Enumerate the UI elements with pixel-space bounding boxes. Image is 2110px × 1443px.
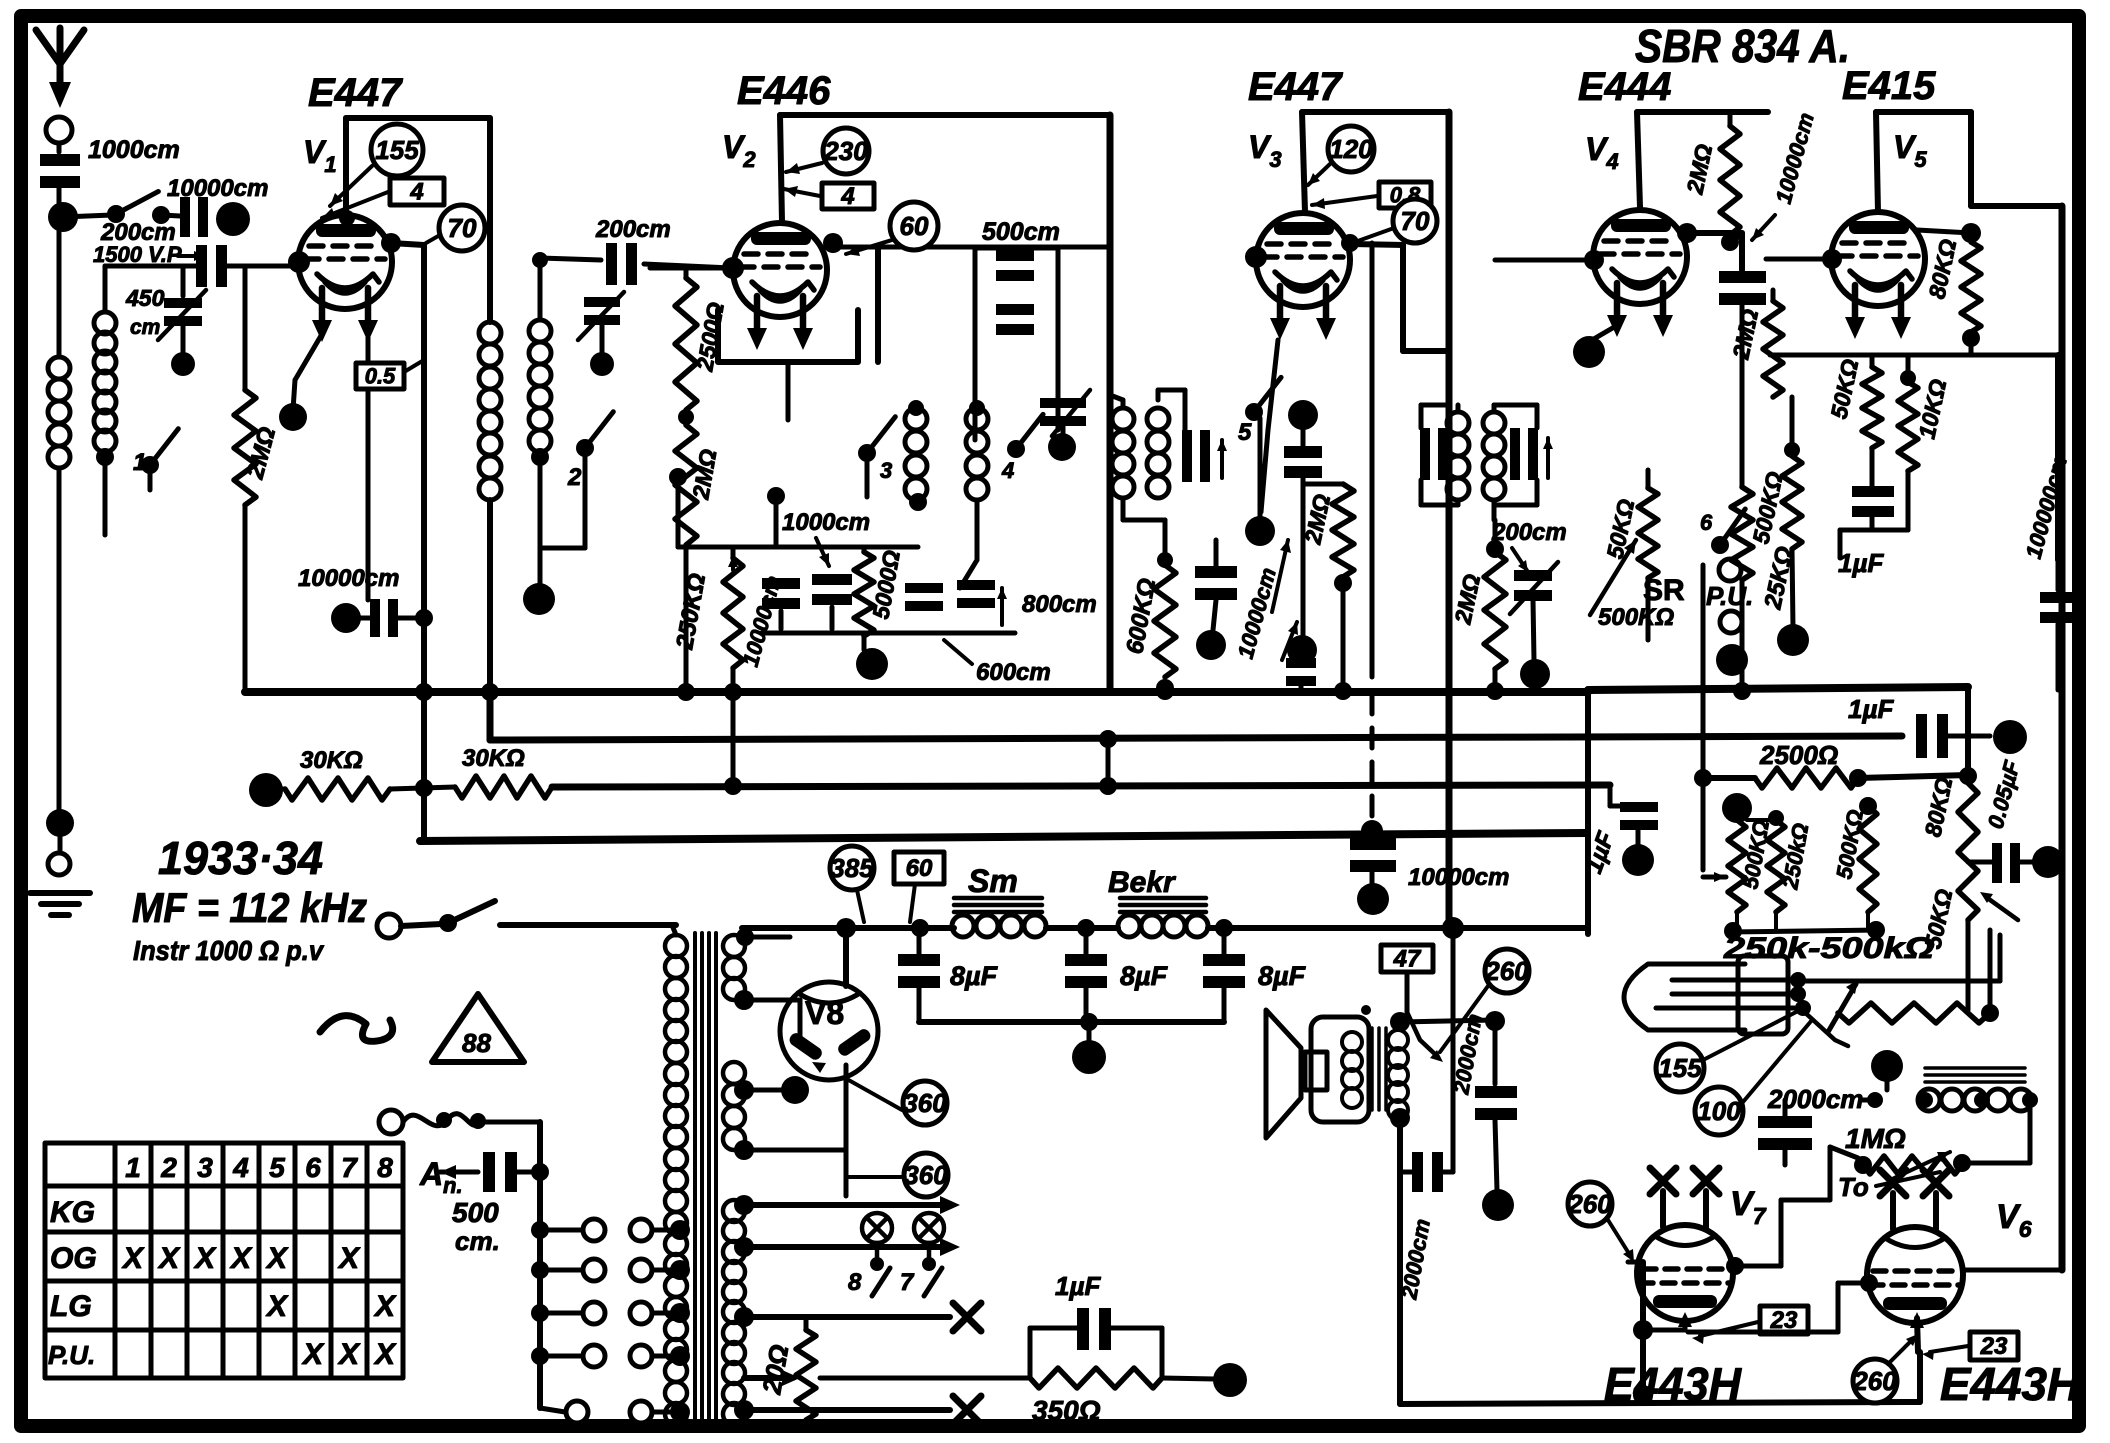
wire — [532, 252, 601, 320]
svg-text:100: 100 — [1697, 1096, 1741, 1126]
top rail V5 — [1876, 112, 1971, 212]
bus A — [245, 688, 1588, 696]
node blob2 — [1287, 635, 1317, 665]
box 23 V6 — [1970, 1332, 2018, 1360]
svg-text:4: 4 — [409, 179, 423, 206]
label 10k — [1913, 377, 1951, 441]
svg-text:5: 5 — [269, 1152, 285, 1183]
switch 5 — [1238, 377, 1281, 446]
capacitor coupling V4-V5 — [1719, 271, 1766, 305]
tilde symbol — [320, 1016, 393, 1042]
fuse — [403, 1112, 486, 1129]
capacitor 500cm a — [996, 250, 1034, 281]
circle 155 — [371, 124, 423, 176]
wire V1 topcap — [343, 118, 349, 215]
capacitor 500cm An — [483, 1152, 540, 1192]
label 2000cm spk — [1448, 1012, 1487, 1097]
svg-text:X: X — [373, 1290, 397, 1323]
svg-text:X: X — [265, 1242, 289, 1275]
resistor 1M tone — [1845, 1123, 1971, 1180]
node V3 plate — [1341, 234, 1359, 252]
pointer — [784, 186, 820, 197]
svg-text:1: 1 — [133, 449, 146, 476]
label 500k v4 — [1747, 469, 1788, 546]
tube V1 — [298, 215, 392, 342]
label E443H b — [1940, 1358, 2081, 1410]
wire — [1781, 1147, 1858, 1266]
node blob — [1993, 720, 2027, 754]
svg-text:1933·34: 1933·34 — [158, 832, 323, 884]
switch 7 — [900, 1268, 942, 1296]
label 25k — [1759, 544, 1799, 612]
svg-text:10000cm: 10000cm — [167, 175, 268, 202]
label 8uF 1 — [950, 961, 999, 991]
wire 8uF bottom — [919, 1019, 1224, 1025]
wire — [1110, 390, 1185, 400]
svg-text:200cm: 200cm — [1491, 519, 1567, 546]
resistor SR 50k — [1638, 488, 1658, 578]
label 250k-500k — [1723, 932, 1934, 965]
pointer — [1312, 196, 1377, 209]
label 2500ohm — [1759, 740, 1838, 770]
circle 260 V7 — [1567, 1182, 1612, 1226]
label 1933-34 — [158, 832, 323, 884]
wire — [644, 264, 731, 268]
wire V3 plate — [1245, 244, 1449, 351]
pointer — [322, 192, 388, 219]
label 1uF busB — [1848, 694, 1894, 724]
pilot lamp 2 — [914, 1213, 944, 1271]
svg-text:cm: cm — [130, 316, 160, 339]
label 250k — [671, 571, 711, 652]
capacitor 8uF 3 — [1203, 928, 1245, 1022]
svg-text:260: 260 — [1484, 956, 1529, 986]
node V5 plate — [1822, 223, 1981, 269]
label 500cm — [982, 218, 1060, 246]
svg-text:X: X — [121, 1242, 145, 1275]
wire main antenna down — [57, 229, 62, 357]
node blob — [1072, 1040, 1106, 1074]
svg-text:1µF: 1µF — [1055, 1271, 1101, 1301]
pointer — [426, 235, 440, 243]
coil V1 plate load — [479, 322, 501, 500]
wire — [181, 266, 186, 296]
wire V1 plate — [391, 243, 433, 701]
label An — [419, 1156, 463, 1198]
wire V7 cath — [1633, 1312, 1692, 1340]
svg-text:6: 6 — [1700, 510, 1713, 535]
IF1 coil a — [1112, 400, 1134, 498]
svg-text:E443H: E443H — [1940, 1358, 2081, 1410]
wire — [487, 118, 493, 322]
wire — [672, 925, 676, 935]
svg-text:2: 2 — [160, 1152, 177, 1183]
label 005uF — [1983, 758, 2025, 832]
circle 260 V6 — [1852, 1359, 1897, 1403]
capacitor 1uF 350 — [1030, 1308, 1162, 1378]
svg-text:1500 V.P: 1500 V.P — [93, 242, 182, 267]
wire — [63, 215, 112, 217]
label 2M v3 — [1299, 492, 1335, 547]
tube V7 — [1637, 1168, 1733, 1321]
IF2 top wires — [1421, 351, 1537, 428]
label 500k a — [1737, 818, 1774, 891]
wire — [1087, 1022, 1092, 1042]
svg-text:To: To — [1838, 1172, 1869, 1202]
arrow row X2 — [734, 1396, 981, 1424]
node blob — [1288, 400, 1318, 430]
transformer secondary low — [723, 1200, 745, 1425]
wire V4 grid — [1495, 258, 1592, 263]
svg-text:X: X — [337, 1242, 361, 1275]
svg-text:E415: E415 — [1842, 64, 1936, 108]
label 500cm An — [452, 1197, 500, 1256]
tube V8 — [780, 982, 878, 1080]
node cath blob v4 — [1573, 336, 1605, 368]
capacitor 800cm b — [957, 580, 1007, 625]
node V1 plate — [381, 233, 401, 253]
resistor 20ohm pot — [796, 1317, 816, 1420]
wire grid V2 — [650, 266, 733, 271]
antenna — [36, 28, 84, 108]
svg-text:X: X — [337, 1338, 361, 1371]
speaker coil — [1342, 1032, 1362, 1108]
node V2 plate — [722, 233, 843, 279]
capacitor osc 2 — [812, 574, 852, 629]
bus C elbow cap — [1610, 785, 1658, 846]
transformer tap2 — [734, 1076, 809, 1104]
label 350ohm — [1032, 1395, 1101, 1426]
node — [152, 206, 170, 224]
wire — [767, 362, 788, 545]
wire PU down — [1703, 565, 1726, 882]
ballast bulb — [1624, 956, 1788, 1034]
capacitor 1000cm — [40, 154, 80, 206]
circle 120 — [1328, 126, 1374, 172]
pointer — [1355, 228, 1394, 242]
wire — [540, 448, 585, 548]
svg-text:30KΩ: 30KΩ — [300, 747, 363, 774]
IF2 bottom wires — [1421, 480, 1537, 520]
pointer — [1922, 1346, 1968, 1360]
pointer — [1890, 1334, 1918, 1362]
svg-text:3: 3 — [880, 458, 892, 483]
node busD junction — [1361, 820, 1383, 842]
label 2500 — [691, 300, 729, 374]
wire mains — [500, 922, 676, 928]
svg-text:230: 230 — [823, 136, 868, 166]
label 30k a — [300, 747, 363, 774]
transformer core — [695, 933, 716, 1428]
svg-text:60: 60 — [900, 211, 929, 241]
power line right — [742, 925, 954, 931]
wire 47 down — [1451, 928, 1456, 1008]
resistor 2M ohm grid V1 — [234, 266, 256, 692]
capacitor V3 cath2 — [1286, 658, 1316, 692]
top rail V3 — [1302, 112, 1449, 928]
svg-text:7: 7 — [900, 1269, 915, 1296]
label 250k b — [1777, 821, 1813, 891]
voltage tap terminals right — [630, 1219, 690, 1423]
wire — [1397, 1118, 1403, 1404]
label 2M — [241, 424, 281, 483]
pointer arrows — [1272, 540, 1298, 660]
label V6 — [1996, 1198, 2032, 1242]
svg-text:70: 70 — [1401, 206, 1430, 236]
svg-text:4: 4 — [1001, 458, 1014, 483]
label V8 — [805, 995, 844, 1031]
label 200cm stage2 — [595, 216, 671, 243]
wire avc line — [1370, 243, 1375, 677]
arrow row X1 — [734, 1303, 981, 1331]
svg-text:250k-500kΩ: 250k-500kΩ — [1723, 932, 1934, 965]
trimmer arrow — [158, 290, 206, 340]
wire tone right — [1962, 1100, 2030, 1163]
label 20ohm — [756, 1342, 794, 1397]
node blob — [2032, 846, 2064, 878]
svg-text:47: 47 — [1393, 946, 1422, 973]
svg-text:0.5: 0.5 — [365, 363, 396, 388]
label 2M v5 — [1727, 307, 1763, 362]
label 100000cm — [2021, 453, 2072, 561]
speaker frame — [1305, 1017, 1369, 1122]
resistor 250k-500k pot — [1838, 930, 1999, 1023]
tube V2 — [733, 223, 827, 350]
label 600k — [1121, 576, 1161, 656]
bus C 30k line — [249, 773, 1610, 807]
label 450cm — [125, 285, 165, 339]
label 1000cm — [782, 509, 870, 566]
label 2M — [687, 447, 721, 502]
box 4 V2 — [822, 183, 874, 210]
node — [1485, 1011, 1505, 1031]
node coil tap — [96, 448, 114, 466]
wire V5 grid — [1766, 257, 1831, 262]
IF1 coil b — [1147, 408, 1169, 498]
capacitor 500cm b — [996, 304, 1034, 335]
capacitor 8uF 1 — [898, 928, 940, 1022]
wire — [366, 334, 371, 600]
pot 250k-500k wiper — [1800, 980, 1858, 1046]
label 200cm — [100, 219, 176, 246]
node — [339, 210, 355, 226]
node — [1390, 1108, 1410, 1128]
node — [415, 779, 433, 797]
arrow row 2 — [734, 1237, 960, 1257]
transformer primary coil — [665, 935, 687, 1425]
circle 360 b — [904, 1153, 948, 1197]
capacitor 200cm trim — [1510, 562, 1558, 660]
tube V3 — [1256, 213, 1350, 340]
svg-text:1000cm: 1000cm — [782, 509, 870, 536]
IF2 coil a — [1447, 412, 1469, 500]
transformer tap wires top — [736, 928, 790, 946]
capacitor 100000cm — [2040, 560, 2076, 690]
svg-text:1MΩ: 1MΩ — [1845, 1123, 1906, 1154]
label 2M v4 — [1449, 572, 1485, 627]
capacitor 10000cm V3 grid — [1195, 540, 1237, 630]
svg-text:360: 360 — [904, 1160, 948, 1190]
SR wiper — [1590, 540, 1636, 615]
transformer tap3 — [734, 1140, 846, 1160]
resistor 2M V5 — [1763, 290, 1783, 397]
coil antenna secondary — [94, 312, 116, 452]
coil osc 1 — [905, 400, 927, 511]
node grid V1 — [288, 251, 310, 273]
wire — [1885, 1066, 1890, 1090]
label 50k SR — [1601, 497, 1639, 561]
pointer — [1308, 164, 1330, 185]
tube V4 — [1593, 210, 1687, 337]
svg-text:P.U.: P.U. — [1706, 581, 1753, 611]
wire h y355 — [1770, 353, 2062, 358]
wire — [57, 143, 62, 152]
circle 385 — [830, 846, 874, 922]
label E447 V3 — [1248, 65, 1343, 109]
svg-text:1µF: 1µF — [1838, 548, 1884, 578]
label 2000cm spk2 — [1396, 1217, 1435, 1302]
svg-text:X: X — [301, 1338, 325, 1371]
node — [481, 682, 1751, 701]
svg-text:LG: LG — [50, 1290, 92, 1323]
pointer — [1752, 215, 1775, 240]
frame under V2 — [718, 247, 878, 362]
svg-text:SBR 834 A.: SBR 834 A. — [1635, 20, 1850, 72]
label V2 — [722, 129, 756, 172]
arrow row 1 — [734, 1195, 960, 1215]
box 47 — [1381, 945, 1443, 1062]
switch 8 — [848, 1268, 890, 1296]
wire — [1123, 498, 1165, 520]
svg-text:X: X — [373, 1338, 397, 1371]
svg-text:MF = 112 kHz: MF = 112 kHz — [132, 884, 367, 931]
box 0.5 — [356, 360, 424, 389]
arrow An — [440, 1165, 478, 1179]
label E444 — [1578, 65, 1671, 109]
output transformer core — [1372, 1028, 1386, 1110]
svg-text:2: 2 — [567, 464, 582, 491]
node — [1048, 433, 1076, 461]
top rail V1 — [346, 115, 490, 121]
node blob — [1871, 1050, 1903, 1082]
resistor 250k — [723, 547, 743, 795]
label 10000cm — [167, 175, 268, 202]
label 2000cm lamp — [1767, 1084, 1863, 1114]
svg-text:1: 1 — [125, 1152, 141, 1183]
IF2 coil b — [1483, 412, 1505, 500]
svg-text:600cm: 600cm — [976, 659, 1051, 686]
label E447 V1 — [308, 71, 403, 115]
label 80k — [1923, 237, 1961, 301]
node blob PU — [1716, 644, 1748, 676]
choke Bekr — [1108, 866, 1208, 937]
svg-text:cm.: cm. — [455, 1226, 500, 1256]
circle 100 lamp — [1695, 1087, 1743, 1135]
svg-text:X: X — [265, 1290, 289, 1323]
svg-text:500KΩ: 500KΩ — [1598, 604, 1674, 631]
ground — [30, 893, 90, 915]
capacitor 800cm a — [905, 583, 943, 611]
resistor 2500ohm cathode — [675, 268, 697, 692]
wire V2 plate — [838, 245, 1110, 250]
svg-text:350Ω: 350Ω — [1032, 1395, 1101, 1426]
bus D — [420, 833, 1586, 841]
node blob — [1482, 1189, 1514, 1221]
tone transformer core — [1925, 1068, 2025, 1082]
wire — [1971, 206, 2062, 1270]
svg-text:4: 4 — [840, 183, 854, 210]
wire osc bottom — [762, 633, 1015, 650]
svg-text:500: 500 — [452, 1197, 499, 1228]
IF2 cap b — [1510, 428, 1553, 480]
wire — [960, 500, 977, 588]
pointer — [1440, 986, 1488, 1052]
wire — [1493, 1021, 1498, 1084]
wire bus A corner down — [1585, 692, 1591, 934]
svg-text:260: 260 — [1567, 1189, 1612, 1219]
ballast filaments — [1656, 972, 1811, 1016]
svg-text:Instr 1000 Ω p.v: Instr 1000 Ω p.v — [133, 935, 324, 966]
wire — [1862, 1098, 1875, 1103]
svg-text:2500Ω: 2500Ω — [1759, 740, 1838, 770]
svg-text:10000cm: 10000cm — [298, 565, 399, 592]
label 1000cm — [88, 136, 180, 164]
label V5 — [1893, 129, 1927, 172]
resistor 80k — [1961, 242, 1981, 347]
svg-text:8: 8 — [377, 1152, 393, 1183]
svg-text:88: 88 — [462, 1028, 491, 1058]
transformer tap — [734, 990, 754, 1010]
svg-text:OG: OG — [50, 1242, 97, 1275]
IF2 cap a — [1420, 428, 1448, 480]
svg-text:Sm: Sm — [968, 863, 1018, 899]
label V3 — [1248, 129, 1282, 172]
capacitor 200cm — [606, 243, 637, 285]
coil antenna primary — [48, 357, 70, 468]
node antenna junction — [48, 202, 78, 232]
wire V8 cathode — [844, 1065, 849, 1196]
capacitor 1500VP coupling — [196, 245, 227, 287]
choke Sm — [952, 863, 1046, 937]
wire — [103, 452, 108, 535]
capacitor trimmer 450cm — [164, 298, 202, 352]
pointer — [1608, 1220, 1634, 1262]
label 10000cm — [298, 565, 399, 592]
box 0.8 V3 — [1379, 182, 1431, 208]
wire — [1400, 1020, 1495, 1022]
label 500k SR — [1598, 604, 1674, 631]
switch antenna — [107, 191, 158, 223]
svg-text:200cm: 200cm — [595, 216, 671, 243]
capacitor 10000cm spk — [1400, 1152, 1453, 1192]
output transformer primary — [1388, 1030, 1408, 1120]
capacitor 10000cm busD — [1350, 838, 1396, 884]
wire — [1792, 549, 1793, 628]
coil osc 2 — [966, 400, 988, 500]
node blob — [523, 583, 555, 615]
label MF 112kHz — [132, 884, 367, 931]
pointer — [1692, 1322, 1758, 1344]
label 80k pot — [1919, 775, 1957, 839]
svg-text:8: 8 — [848, 1269, 862, 1296]
label E443H a — [1604, 1358, 1742, 1410]
svg-text:70: 70 — [448, 213, 477, 243]
svg-text:360: 360 — [903, 1088, 947, 1118]
svg-text:KG: KG — [50, 1196, 95, 1229]
switch 4 — [1001, 414, 1043, 483]
svg-text:E447: E447 — [1248, 65, 1343, 109]
pilot lamp 1 — [862, 1213, 892, 1271]
